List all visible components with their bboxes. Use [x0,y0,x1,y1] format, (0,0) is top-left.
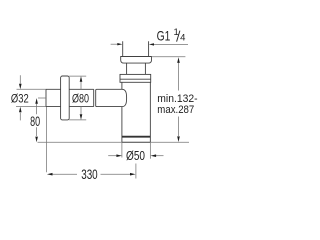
G dim left arrowhead [117,43,122,45]
Ø50 left arrowhead [116,154,122,157]
bottom extension line right [150,141,189,143]
80 top arrowhead [35,98,38,104]
330 dim line right [101,173,131,175]
neck [127,63,146,74]
Ø50 left tick [121,142,123,157]
svg-text:Ø50: Ø50 [126,149,145,163]
G dim right arrowhead [149,43,154,45]
wall flange [61,76,70,120]
330 left arrowhead [47,173,53,176]
330 dim line left [53,173,78,175]
Ø32 bottom extension [16,106,46,108]
Ø32 dim arrow tails [19,75,21,120]
svg-text:max.287: max.287 [157,104,194,116]
minmax dim line [178,63,180,136]
Ø50 right arrowhead [151,154,157,157]
tube1 flange to seam [69,89,94,106]
rim bottom dark segment [122,141,150,143]
svg-text:G1: G1 [157,27,171,43]
svg-text:Ø80: Ø80 [72,91,89,105]
Ø50 right arrow tail [156,155,164,157]
svg-text:4: 4 [180,32,185,43]
nut [121,57,152,64]
bottom extension line left [38,141,122,143]
wall stub tube [46,89,61,106]
Ø32 top extension [17,88,47,90]
330 right tick [135,164,137,179]
svg-text:80: 80 [30,114,40,129]
330 left tick [46,107,48,172]
svg-text:330: 330 [81,167,98,182]
Ø50 left arrow tail [108,155,116,157]
lid [120,74,151,82]
Ø80 top extension [69,75,86,77]
Ø80 bottom arrowhead [80,114,83,120]
minmax top arrowhead [177,57,180,63]
80 dim line [36,104,38,136]
minmax bottom arrowhead [177,136,180,142]
Ø80 bottom extension [69,119,86,121]
cup left wall lower [121,136,123,142]
lid inner line [120,78,151,80]
inlet bulge [122,89,127,106]
Ø32 top arrowhead [19,84,22,90]
G dim left tail [111,43,118,45]
Ø80 dim line [80,82,82,115]
Ø80 top arrowhead [80,76,83,82]
minmax top extension [151,56,185,58]
cup left wall [121,82,123,136]
cup right wall [149,82,151,142]
rim top thick line [122,136,150,138]
Ø50 right tick [149,142,151,158]
tube2 seam to cup [96,89,122,106]
G dim right leader [154,43,188,45]
svg-text:min.132-: min.132- [157,93,198,105]
Ø32 bottom arrowhead [19,107,22,113]
330 right arrowhead [130,173,136,176]
svg-text:Ø32: Ø32 [11,92,29,106]
80 bottom arrowhead [35,137,38,143]
80 dim centerline extension [38,97,46,99]
top pipe [123,41,149,56]
